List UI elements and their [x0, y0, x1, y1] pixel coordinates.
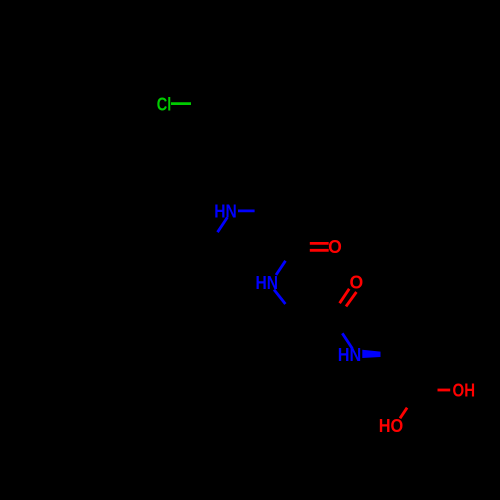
svg-text:HN: HN [338, 344, 362, 365]
svg-text:OH: OH [453, 380, 476, 401]
svg-text:O: O [350, 271, 364, 292]
svg-text:Cl: Cl [157, 94, 172, 115]
svg-text:O: O [328, 236, 342, 257]
svg-text:HO: HO [379, 415, 404, 436]
